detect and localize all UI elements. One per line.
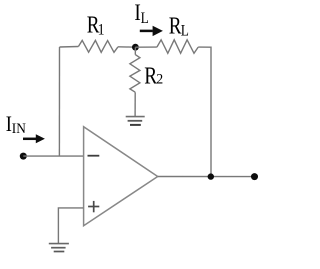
wire RL to top-right corner and right vertical <box>198 47 211 177</box>
ground under R2 <box>126 117 145 125</box>
op-amp minus sign inverting input <box>88 155 100 157</box>
svg-text:L: L <box>141 10 149 27</box>
arrow IIN input current direction <box>23 138 36 141</box>
node output junction dot <box>208 173 214 179</box>
resistor R1 <box>78 40 118 52</box>
op-amp U1 triangle <box>84 127 158 226</box>
svg-text:1: 1 <box>98 22 105 39</box>
node output terminal dot <box>251 173 258 180</box>
node input terminal dot <box>20 153 27 160</box>
node A junction dot <box>132 44 139 51</box>
resistor RL <box>157 40 198 54</box>
svg-text:L: L <box>181 23 189 40</box>
resistor R2 vertical zigzag <box>130 55 140 93</box>
wire R2 top lead from node A <box>134 47 136 54</box>
wire feedback vertical from R1 left down to inverting input <box>58 47 60 156</box>
wire node A to RL <box>135 46 157 48</box>
svg-text:R: R <box>169 13 182 40</box>
wire op-amp output <box>158 176 255 178</box>
svg-text:IN: IN <box>12 122 26 138</box>
ground bottom-left at plus input <box>49 244 69 252</box>
wire top-left horizontal segment <box>60 46 79 49</box>
op-amp plus sign non-inverting input <box>88 201 99 212</box>
wire input horizontal to inverting input <box>23 155 83 157</box>
wire R2 bottom lead to ground <box>134 92 136 116</box>
wire non-inverting input to ground <box>58 208 83 244</box>
svg-text:2: 2 <box>156 72 163 88</box>
wire R1 to node A <box>118 46 135 48</box>
arrow IL current direction <box>140 30 153 33</box>
